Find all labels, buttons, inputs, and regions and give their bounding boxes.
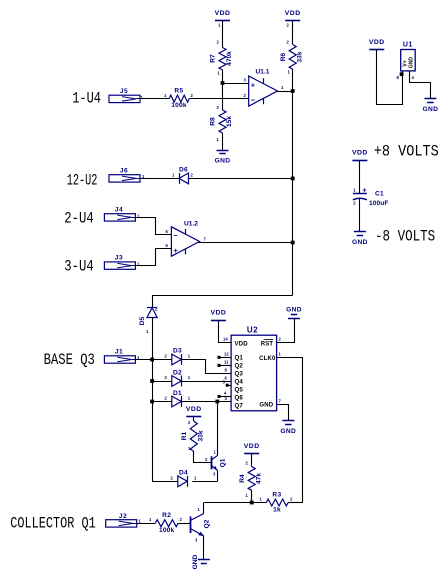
U2 pin Q5 no-connect stub	[228, 385, 232, 387]
wire bus down to D5	[152, 295, 154, 308]
svg-text:GND: GND	[286, 306, 302, 313]
svg-text:GND: GND	[259, 402, 273, 408]
wire VDD to U2 VDD pin 14	[219, 321, 232, 343]
wire VDD to C1	[359, 160, 361, 193]
power VDD for U1	[369, 49, 384, 51]
ground below U2	[282, 420, 294, 422]
wire Q2 emitter down	[203, 536, 205, 560]
resistor R5 100k	[169, 95, 189, 102]
svg-text:COLLECTOR Q1: COLLECTOR Q1	[10, 514, 96, 532]
svg-text:+: +	[174, 246, 179, 255]
resistor R7 470k	[219, 48, 226, 71]
ground under R8	[217, 150, 229, 152]
svg-text:J6: J6	[120, 168, 128, 175]
svg-text:J4: J4	[115, 206, 123, 213]
resistor R4 47k	[248, 467, 255, 491]
node C junction on bus	[291, 177, 295, 181]
diode D1	[172, 396, 182, 407]
U2 pin Q1 no-connect stub	[220, 357, 231, 359]
svg-text:R1: R1	[181, 431, 188, 440]
svg-text:D1: D1	[173, 390, 182, 397]
diode D3	[172, 354, 182, 365]
wire VDD to R1	[193, 417, 195, 421]
svg-text:100uF: 100uF	[369, 200, 389, 207]
op-amp U1.2	[171, 227, 199, 256]
U2 pin Q2 no-connect stub	[220, 365, 231, 367]
svg-text:470k: 470k	[226, 51, 233, 66]
svg-text:+8 VOLTS: +8 VOLTS	[374, 142, 439, 160]
svg-text:Q6: Q6	[235, 395, 244, 402]
ground above RST	[288, 318, 300, 320]
diode D5 (points up)	[147, 308, 157, 318]
svg-text:R8: R8	[210, 117, 217, 126]
wire VDD to R6	[292, 20, 294, 44]
svg-text:Q3: Q3	[235, 371, 244, 378]
ground below Q2 (rotated label)	[198, 559, 210, 561]
svg-text:Q4: Q4	[235, 379, 244, 386]
svg-text:33k: 33k	[296, 51, 303, 62]
resistor R6 33k	[289, 45, 296, 70]
wire J4 to -input of U1.2	[136, 218, 172, 235]
svg-text:GND: GND	[422, 106, 438, 113]
svg-text:GND: GND	[409, 57, 415, 69]
svg-text:GND: GND	[215, 157, 231, 164]
svg-text:VDD: VDD	[235, 341, 249, 347]
node A junction (divider to +input)	[221, 81, 225, 85]
svg-text:GND: GND	[192, 554, 199, 569]
svg-text:1-U4: 1-U4	[72, 90, 101, 108]
power VDD rail for R4	[244, 453, 259, 455]
svg-text:D5: D5	[139, 316, 146, 325]
svg-text:VDD: VDD	[186, 406, 202, 413]
wire U1 pin 4 to ground	[410, 71, 431, 99]
svg-text:2-U4: 2-U4	[64, 209, 93, 227]
svg-text:+: +	[362, 188, 366, 195]
svg-text:Q2: Q2	[204, 519, 211, 528]
op-amp U1.1	[249, 76, 278, 106]
svg-text:Q7: Q7	[235, 403, 244, 410]
svg-text:−: −	[251, 96, 256, 105]
wire bus node G down to D4 row	[152, 402, 154, 482]
svg-text:BASE Q3: BASE Q3	[44, 351, 95, 369]
wire CLK0 pin 1 to R3 net	[277, 358, 303, 503]
wire J1 to node E	[135, 359, 152, 361]
svg-text:R4: R4	[239, 474, 246, 483]
wire D6 to node C	[189, 178, 293, 180]
svg-text:11: 11	[224, 360, 229, 365]
capacitor C1 100uF (polarized)	[353, 193, 367, 195]
IC U2 (ripple counter)	[231, 335, 277, 411]
svg-text:V+: V+	[402, 60, 408, 66]
svg-text:12: 12	[224, 352, 229, 357]
svg-text:GND: GND	[280, 428, 296, 435]
svg-text:J1: J1	[115, 348, 123, 355]
svg-text:−: −	[174, 231, 179, 240]
wire bus node E down	[152, 360, 154, 382]
wire R4 to node I	[251, 490, 253, 502]
svg-text:Q2: Q2	[235, 363, 244, 370]
wire D3 to U2 Q3 pin	[182, 360, 232, 374]
wire R5 to -input pin2	[189, 98, 249, 100]
diode D4	[178, 476, 188, 487]
wire node F to D2	[152, 381, 172, 383]
power VDD rail for R7	[215, 20, 230, 22]
svg-text:R6: R6	[280, 52, 287, 61]
wire VDD to U1 pin 8	[377, 50, 403, 105]
wire Q1 collector up to node H	[217, 402, 219, 456]
svg-text:D2: D2	[173, 369, 182, 376]
svg-text:100k: 100k	[159, 527, 175, 534]
transistor Q2 (NPN)	[190, 517, 192, 534]
svg-text:R3: R3	[272, 492, 281, 499]
ground for U1	[424, 98, 436, 100]
svg-text:U1.2: U1.2	[184, 220, 198, 227]
svg-text:Q5: Q5	[235, 387, 244, 394]
svg-text:J3: J3	[115, 255, 123, 262]
svg-text:R2: R2	[162, 512, 171, 519]
svg-text:GND: GND	[352, 239, 368, 246]
wire U2 GND pin 7 to ground	[277, 405, 289, 421]
svg-text:U1.1: U1.1	[256, 69, 270, 76]
wire bus node F down	[152, 381, 154, 402]
power VDD rail for R6	[285, 20, 300, 22]
svg-text:14: 14	[223, 337, 228, 342]
wire emitter row to D4 cathode	[192, 481, 217, 483]
wire node G to D1	[152, 401, 172, 403]
power VDD for supply	[352, 160, 367, 162]
svg-text:VDD: VDD	[352, 150, 368, 157]
svg-text:R5: R5	[174, 88, 183, 95]
node E junction BASE bus	[150, 358, 154, 362]
node I junction R4/R3	[250, 501, 254, 505]
svg-text:CLK0: CLK0	[259, 356, 276, 362]
svg-text:C1: C1	[375, 191, 384, 198]
svg-text:U1: U1	[403, 41, 413, 48]
wire J2 to R2	[137, 523, 156, 525]
svg-text:VDD: VDD	[369, 39, 385, 46]
wire node A to +input pin3	[223, 83, 249, 85]
resistor R8 15k	[219, 110, 226, 133]
svg-text:-8 VOLTS: -8 VOLTS	[375, 228, 435, 246]
wire C1 to ground	[359, 199, 361, 232]
wire ground to RST pin 2	[277, 319, 295, 343]
wire VDD to R4	[251, 453, 253, 466]
svg-text:R7: R7	[210, 54, 217, 63]
wire D2 to U2 Q4 pin	[181, 381, 231, 383]
wire left bus to D4 anode	[152, 481, 178, 483]
power VDD rail for U2	[211, 320, 226, 322]
svg-text:1k: 1k	[273, 507, 281, 514]
svg-text:15k: 15k	[226, 116, 233, 127]
power VDD rail for R1	[186, 416, 201, 418]
svg-text:J2: J2	[119, 513, 127, 520]
wire U1.2 output to bus node D	[198, 242, 293, 244]
svg-text:J5: J5	[120, 88, 128, 95]
resistor R3 1k	[266, 499, 288, 506]
transistor Q1 (NPN)	[211, 456, 213, 469]
wire J3 to +input of U1.2	[136, 249, 172, 266]
wire node E to D3	[152, 359, 172, 361]
ground for supply	[354, 231, 366, 233]
U2 pin Q6 no-connect stub	[220, 396, 231, 398]
svg-text:VDD: VDD	[215, 10, 231, 17]
node D junction on bus	[291, 241, 295, 245]
node B junction output/R6	[291, 89, 295, 93]
wire VDD to R7	[222, 20, 224, 47]
wire R1 to Q1 base	[194, 452, 212, 463]
svg-text:100k: 100k	[171, 102, 187, 109]
svg-text:12-U2: 12-U2	[67, 171, 98, 189]
wire node B down the right bus	[292, 91, 294, 295]
node H junction Q1 collector tap	[215, 400, 219, 404]
svg-text:D6: D6	[179, 167, 188, 174]
wire R6 to node B	[292, 69, 294, 91]
wire Q2 collector net to R3	[204, 502, 266, 504]
svg-text:Q1: Q1	[235, 355, 244, 362]
diode D6	[179, 173, 189, 184]
svg-text:D4: D4	[179, 469, 188, 476]
svg-text:33k: 33k	[198, 430, 205, 441]
svg-text:Q1: Q1	[220, 458, 227, 467]
svg-text:+: +	[251, 81, 256, 90]
wire D5 to BASE node	[152, 318, 154, 360]
wire R2 to Q2 base	[178, 523, 190, 525]
svg-text:VDD: VDD	[285, 10, 301, 17]
resistor R2 100k	[155, 520, 178, 527]
svg-text:3-U4: 3-U4	[64, 258, 93, 276]
svg-text:47k: 47k	[255, 473, 262, 484]
diode D2	[172, 376, 182, 387]
wire R8 to ground	[222, 133, 224, 150]
resistor R1 33k	[190, 421, 197, 451]
wire Q2 collector up	[203, 503, 205, 514]
wire Q1 emitter down	[217, 470, 219, 481]
svg-text:VDD: VDD	[210, 310, 226, 317]
wire node A down across -wire to R8	[222, 83, 224, 110]
node F junction D2	[150, 379, 154, 383]
wire R7 to node A	[222, 70, 224, 83]
IC U1 power pins block	[401, 50, 416, 71]
wire U1.1 output to node B	[278, 91, 293, 93]
node G junction D1	[150, 400, 154, 404]
wire D1 to U2 Q7 pin	[181, 401, 231, 403]
svg-text:D3: D3	[173, 348, 182, 355]
svg-text:VDD: VDD	[244, 443, 260, 450]
wire R3 to CLK0 riser	[288, 502, 303, 504]
wire J5 to R5	[140, 98, 169, 100]
wire J6 to D6	[140, 178, 179, 180]
svg-text:RST: RST	[261, 341, 274, 347]
svg-text:U2: U2	[247, 326, 258, 335]
wire bus across to left	[152, 295, 293, 297]
